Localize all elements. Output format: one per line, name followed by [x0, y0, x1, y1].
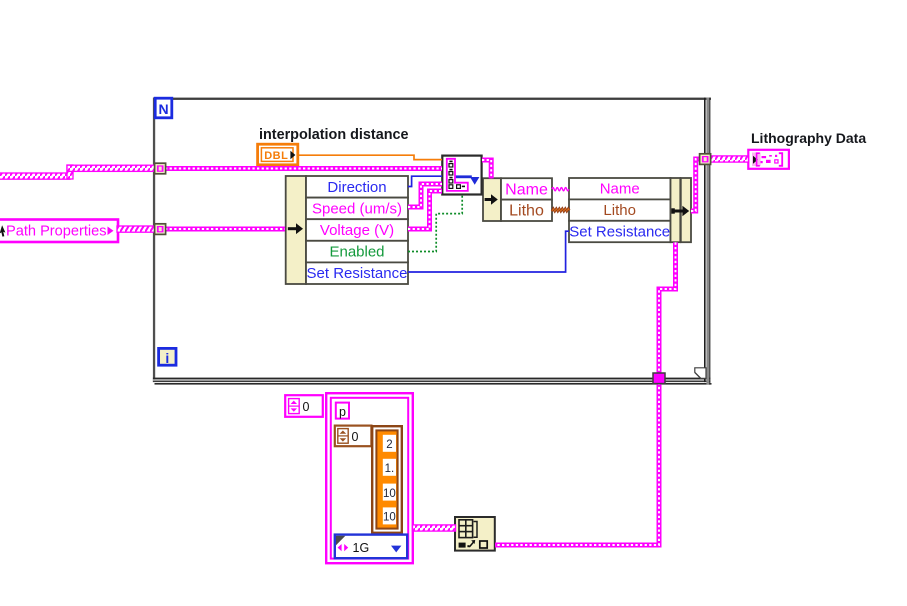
svg-text:p: p: [339, 405, 346, 419]
svg-text:Litho: Litho: [603, 202, 636, 219]
svg-text:Direction: Direction: [327, 179, 386, 196]
svg-text:2: 2: [386, 439, 392, 451]
svg-text:N: N: [158, 101, 168, 117]
svg-text:Lithography Data: Lithography Data: [751, 130, 866, 146]
svg-text:Enabled: Enabled: [329, 244, 384, 261]
svg-text:Name: Name: [600, 181, 640, 198]
svg-text:0: 0: [352, 430, 359, 444]
svg-text:Speed (um/s): Speed (um/s): [312, 200, 402, 217]
svg-text:10: 10: [383, 512, 396, 524]
svg-text:Path Properties: Path Properties: [6, 224, 107, 240]
svg-text:DBL: DBL: [264, 150, 288, 162]
svg-text:Set Resistance: Set Resistance: [307, 265, 408, 282]
svg-text:i: i: [165, 350, 169, 366]
svg-text:Set Resistance: Set Resistance: [569, 224, 670, 241]
svg-text:interpolation distance: interpolation distance: [259, 127, 409, 143]
svg-text:Litho: Litho: [509, 203, 544, 220]
svg-text:Voltage (V): Voltage (V): [320, 222, 394, 239]
svg-text:0: 0: [303, 400, 310, 414]
svg-text:10: 10: [383, 488, 396, 500]
svg-text:1.: 1.: [385, 463, 395, 475]
svg-text:Name: Name: [505, 181, 548, 198]
svg-text:1G: 1G: [353, 541, 370, 555]
